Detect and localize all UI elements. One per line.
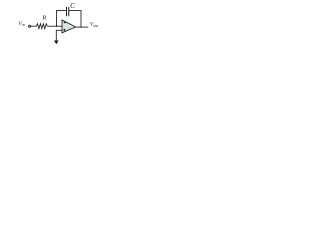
wire output bbox=[76, 26, 89, 28]
op-amp plus sign bbox=[63, 29, 65, 31]
svg-text:C: C bbox=[70, 1, 76, 10]
svg-text:Vin: Vin bbox=[18, 21, 24, 27]
op-amp minus sign bbox=[64, 22, 66, 24]
wire feedback up bbox=[57, 11, 67, 27]
wire capacitor to output bbox=[69, 11, 81, 28]
node output junction bbox=[80, 26, 81, 27]
op-amp U1 bbox=[62, 20, 76, 33]
capacitor C plates bbox=[67, 7, 69, 16]
node feedback junction bbox=[56, 26, 57, 27]
wire resistor to op-amp inverting input bbox=[47, 25, 62, 27]
resistor R bbox=[36, 24, 47, 29]
wire noninverting input bbox=[56, 30, 62, 40]
input terminal bbox=[29, 25, 31, 27]
wire terminal to resistor bbox=[31, 25, 37, 27]
ground bbox=[54, 41, 59, 45]
svg-text:Vout: Vout bbox=[90, 22, 99, 29]
svg-text:R: R bbox=[41, 14, 46, 21]
